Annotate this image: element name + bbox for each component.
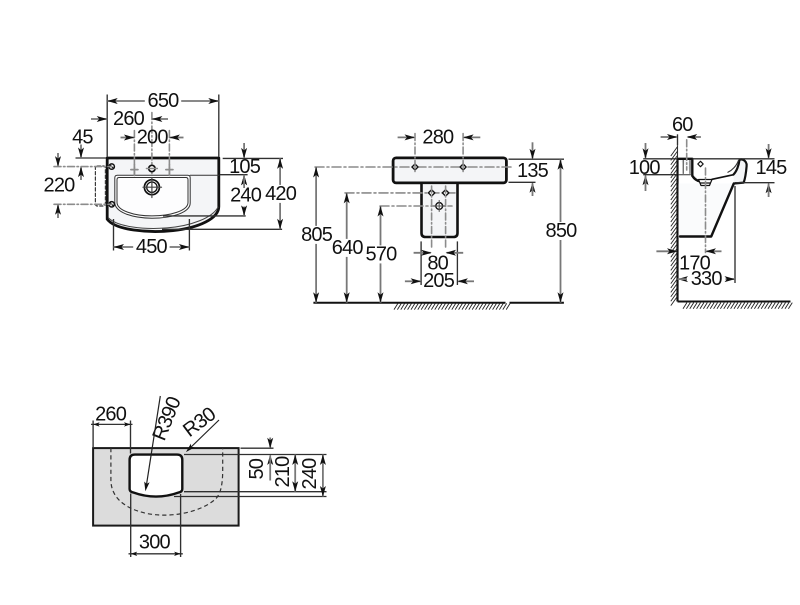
- tap mark right cross: [166, 169, 173, 171]
- ext line 450 right: [188, 219, 190, 251]
- dim 220: [57, 153, 59, 166]
- pedestal hole left (diamond): [428, 190, 434, 196]
- dim 650: [107, 100, 145, 102]
- ext line top edge left (for 45): [76, 157, 107, 159]
- semi-pedestal front view: [422, 184, 458, 237]
- svg-text:650: 650: [148, 90, 180, 112]
- hidden dashed bracket (plan left): [95, 166, 105, 206]
- tap deck side profile: [679, 159, 701, 182]
- svg-text:640: 640: [332, 237, 364, 259]
- pedestal drain hole circle: [436, 203, 443, 210]
- pedestal hole centerline (640 ref): [345, 192, 455, 194]
- ext line 300 left: [130, 494, 132, 558]
- dim 100: [645, 143, 647, 158]
- fixing hole right (diamond): [460, 164, 466, 170]
- svg-text:210: 210: [272, 456, 294, 488]
- dim 240: [241, 175, 247, 186]
- dim 200: [121, 137, 135, 139]
- ext line 450 left: [113, 219, 115, 251]
- ext line cutout top right (for 50/210/240): [184, 454, 327, 456]
- front rim side profile: [733, 159, 746, 183]
- dim 50: [269, 438, 271, 448]
- drain centerline (570 ref): [380, 205, 452, 207]
- middle tap hole: [149, 165, 155, 171]
- svg-text:200: 200: [137, 127, 169, 149]
- ext line 260 right (cutout edge up): [130, 421, 132, 454]
- dim 170: [656, 250, 676, 252]
- dim 300: [129, 553, 183, 555]
- deck underside line: [679, 174, 691, 176]
- fixing hole left (diamond): [412, 164, 418, 170]
- dim 80: [414, 252, 431, 254]
- floor line front view: [313, 302, 505, 304]
- dim 450: [114, 246, 134, 248]
- ext line bar top right (for 850/135): [509, 158, 565, 160]
- pedestal hole right (diamond): [442, 190, 448, 196]
- svg-text:805: 805: [301, 224, 333, 246]
- dim 805: [315, 167, 317, 226]
- ext line pedestal left (for 205): [420, 241, 422, 285]
- cutout opening: [130, 455, 183, 497]
- svg-text:240: 240: [230, 185, 262, 207]
- screw centerline lower (plan): [54, 203, 112, 205]
- ext line 300 right: [180, 494, 182, 557]
- basin body front view: [393, 158, 506, 183]
- svg-text:145: 145: [756, 157, 788, 179]
- svg-text:45: 45: [72, 127, 93, 149]
- ext line deck underside left (for 100): [643, 174, 676, 176]
- inner bowl rim line (plan): [117, 178, 188, 216]
- screw fixing bottom-left: [109, 202, 114, 207]
- svg-text:100: 100: [629, 157, 661, 179]
- ext line 650 left: [106, 95, 108, 158]
- dim 240 (template): [322, 455, 324, 497]
- leader R30: [188, 420, 220, 451]
- floor hatching side view: [683, 303, 792, 309]
- floor line side view: [678, 301, 791, 303]
- svg-text:240: 240: [299, 458, 321, 490]
- dim 205: [405, 280, 420, 282]
- ext line basin top (for 100/145): [643, 158, 677, 160]
- countertop slab: [93, 448, 239, 525]
- fixing hole diamond side: [698, 161, 703, 166]
- dim 210: [294, 455, 296, 492]
- svg-text:280: 280: [422, 126, 454, 148]
- ext line slab top right (for 50): [241, 447, 274, 449]
- deck ledge line (plan): [190, 174, 219, 176]
- pedestal bolt centerline left vertical: [431, 186, 433, 248]
- fixing hole centerline horizontal (805 ref): [315, 166, 511, 168]
- svg-text:205: 205: [423, 270, 455, 292]
- drain centerline side: [705, 168, 707, 253]
- svg-text:220: 220: [44, 175, 76, 197]
- svg-text:420: 420: [265, 183, 297, 205]
- dim 280: [398, 136, 414, 138]
- basin outline (plan view): [107, 158, 219, 231]
- ext line 260 left (slab edge up): [92, 421, 94, 448]
- floor hatching front view: [394, 303, 510, 309]
- svg-text:450: 450: [136, 236, 168, 258]
- dim 145: [768, 144, 770, 158]
- centerline 280 right vertical: [462, 134, 464, 173]
- centerline tap left (plan): [133, 131, 135, 176]
- ext line cutout bottom right (for 210): [184, 491, 327, 493]
- svg-text:850: 850: [546, 220, 578, 242]
- bowl floor slope line: [712, 175, 733, 180]
- rim inner line: [728, 161, 739, 173]
- dim 850: [560, 159, 562, 222]
- centerline tap middle (plan): [151, 113, 153, 177]
- basin hidden outline (dashed): [111, 448, 223, 515]
- ext line arc bottom right (for 240): [174, 496, 327, 498]
- dim 570: [380, 206, 382, 245]
- tap hole shaft lines: [682, 160, 684, 173]
- ext line pedestal right (for 205): [456, 241, 458, 285]
- pedestal bolt centerline right vertical: [445, 186, 447, 248]
- ext line top edge right (for 105/420): [223, 157, 283, 159]
- dim 420: [279, 158, 281, 185]
- leader R390: [146, 396, 160, 487]
- svg-text:260: 260: [95, 404, 127, 426]
- semi-pedestal side profile: [679, 184, 734, 237]
- dim 135: [532, 142, 534, 158]
- ext line 330 vertical: [734, 186, 736, 283]
- ext line 650 right: [218, 95, 220, 158]
- ext line rim bottom (for 145): [735, 182, 775, 184]
- wall line side view: [676, 159, 678, 302]
- svg-text:50: 50: [246, 458, 268, 479]
- drain trap side: [699, 180, 713, 186]
- ext line outline bottom (for 420): [162, 228, 282, 230]
- dim 260: [91, 118, 107, 120]
- svg-text:300: 300: [139, 532, 171, 554]
- ext line bar bottom right (for 135): [509, 181, 536, 183]
- centerline 280 left vertical: [414, 134, 416, 173]
- svg-text:570: 570: [366, 243, 398, 265]
- tap mark left cross: [131, 169, 138, 171]
- dim 330: [678, 276, 689, 282]
- inner bowl (plan): [115, 175, 190, 218]
- svg-text:60: 60: [672, 114, 693, 136]
- centerline tap right (plan): [168, 131, 170, 176]
- svg-text:135: 135: [517, 160, 549, 182]
- drain hole: [144, 180, 159, 195]
- svg-text:330: 330: [691, 268, 723, 290]
- basin front apron line (plan): [109, 207, 218, 228]
- ext line bowl bottom right (for 240): [163, 215, 246, 217]
- screw fixing top-left: [109, 164, 114, 169]
- dim 105: [243, 143, 245, 157]
- screw centerline upper (plan): [54, 166, 112, 168]
- wall hatching side view: [671, 147, 678, 306]
- dim 640: [346, 193, 348, 239]
- ext line bowl top right (for 105): [220, 174, 248, 176]
- ext line wall top (for 60): [677, 134, 679, 145]
- tap centerline side: [686, 140, 688, 170]
- dim 260: [91, 423, 133, 425]
